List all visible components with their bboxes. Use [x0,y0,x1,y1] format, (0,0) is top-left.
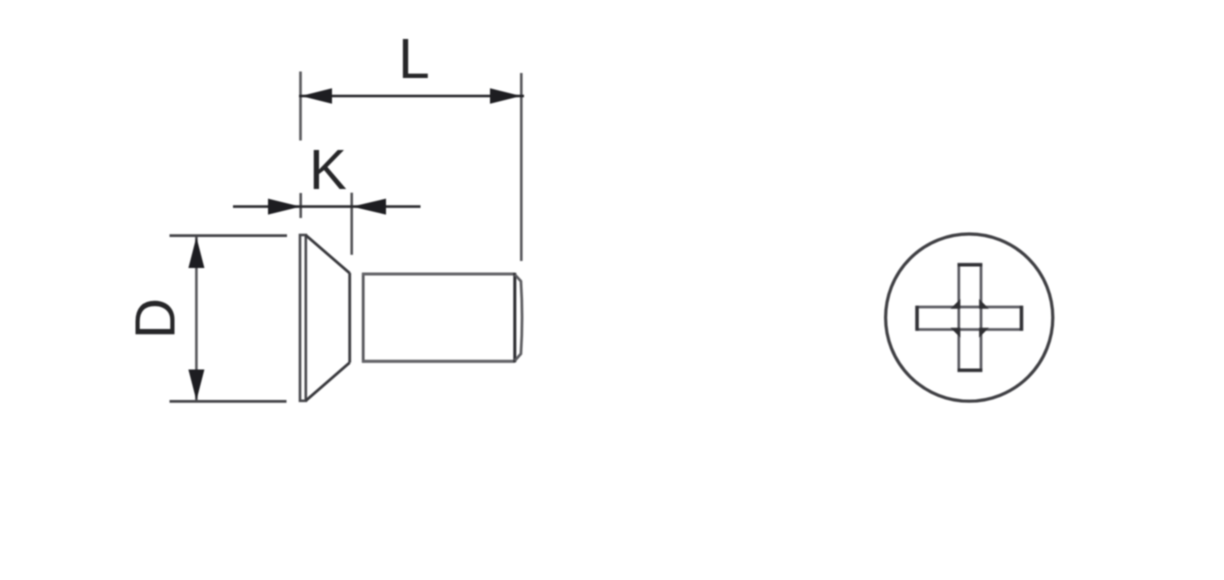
phillips vertical slot [958,264,983,371]
dimension L extension line left [299,72,302,141]
shank end face [513,273,516,362]
dimension K tick left [299,193,302,218]
dimension K line [233,205,421,208]
svg-text:L: L [398,27,429,90]
svg-text:K: K [309,138,347,201]
dimension D arrowhead down [188,370,204,401]
phillips chamfer top-left [951,299,961,309]
front view head circle [886,234,1053,401]
phillips chamfer bottom-left [951,328,961,338]
shank top edge [362,272,515,275]
dimension K tick right / extension to head [350,193,353,255]
dimension L arrowhead right [490,88,521,103]
neck ring line 1 [348,273,351,363]
dimension D arrowhead up [188,237,204,268]
svg-text:D: D [123,298,186,339]
phillips chamfer bottom-right [979,328,989,338]
shank bottom edge [362,360,515,363]
dimension L arrowhead left [301,88,332,103]
shank end chamfer outline [515,275,522,361]
dimension K arrowhead pointing left [352,199,386,215]
label L [398,27,429,90]
dimension L line [299,95,524,98]
dimension D extension line bottom [170,400,287,403]
phillips horizontal slot [917,306,1023,331]
phillips chamfer top-right [979,299,989,309]
screw head cone bottom edge [306,363,350,401]
dimension L extension line right [520,73,523,261]
neck ring line 2 [362,273,365,363]
label K [309,138,347,201]
dimension K arrowhead pointing right [268,199,301,215]
screw head cone top edge [306,235,350,273]
label D (rotated) [123,298,186,339]
dimension D line [195,237,198,401]
screw head flat face (double line) [300,235,306,401]
dimension D extension line top [170,234,288,237]
